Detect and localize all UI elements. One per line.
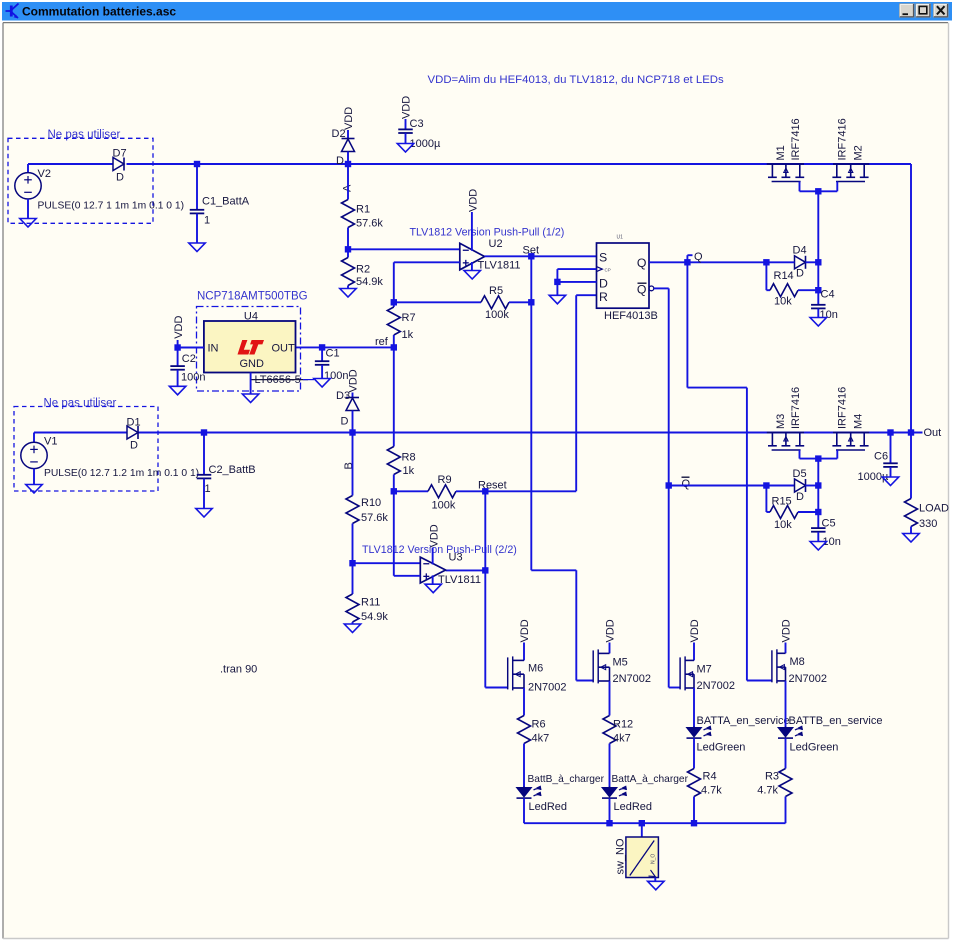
wire Set vertical	[530, 256, 532, 302]
svg-text:D: D	[341, 416, 349, 428]
junction	[349, 429, 355, 435]
svg-text:.tran 90: .tran 90	[220, 664, 257, 676]
capacitor C5	[817, 486, 819, 513]
diode D7	[113, 158, 124, 171]
wire U3 output	[446, 569, 486, 571]
svg-text:R: R	[599, 290, 608, 304]
svg-text:BattA_à_charger: BattA_à_charger	[612, 774, 689, 785]
svg-text:U3: U3	[449, 552, 463, 564]
junction	[391, 299, 397, 305]
svg-text:1k: 1k	[402, 329, 414, 341]
resistor R7	[393, 302, 395, 307]
svg-text:BATTA_en_service: BATTA_en_service	[697, 715, 790, 727]
svg-text:OUT: OUT	[272, 343, 296, 355]
svg-text:C2_BattB: C2_BattB	[209, 464, 256, 476]
junction	[684, 259, 690, 265]
svg-text:4.7k: 4.7k	[757, 785, 778, 797]
junction	[815, 455, 821, 461]
svg-text:C3: C3	[410, 118, 424, 130]
junction	[908, 429, 914, 435]
wire Reset net down to M6 gate	[484, 570, 486, 687]
svg-text:54.9k: 54.9k	[356, 276, 383, 288]
svg-text:U4: U4	[244, 311, 258, 323]
wire Qbar net down	[668, 288, 670, 687]
svg-text:M3: M3	[775, 414, 787, 429]
wire D pin	[557, 281, 596, 283]
svg-text:D4: D4	[793, 245, 807, 257]
svg-text:V2: V2	[38, 168, 51, 180]
svg-text:LedGreen: LedGreen	[697, 742, 746, 754]
dashed box top (Ne pas utiliser)	[8, 138, 153, 223]
junction	[815, 482, 821, 488]
junction	[391, 488, 397, 494]
title bar	[2, 2, 952, 21]
wire M3/M4 gates	[799, 450, 801, 459]
svg-text:C2: C2	[182, 353, 196, 365]
op-amp U3 TLV1811	[420, 557, 445, 583]
svg-text:ref: ref	[375, 336, 389, 348]
wire Reset down to U3 output	[484, 491, 486, 570]
svg-text:GND: GND	[240, 358, 265, 370]
resistor R9	[394, 490, 428, 492]
junction	[815, 188, 821, 194]
junction	[345, 246, 351, 252]
junction	[194, 161, 200, 167]
ground U3	[425, 584, 441, 593]
svg-text:R11: R11	[361, 597, 380, 609]
resistor R5	[394, 301, 481, 303]
wire U3 + input	[393, 491, 395, 576]
svg-text:D7: D7	[113, 148, 127, 160]
wire U4 GND pin	[250, 373, 252, 395]
svg-text:57.6k: 57.6k	[356, 218, 383, 230]
wire to U2 inverting input	[348, 248, 460, 250]
junction	[391, 344, 397, 350]
svg-text:S: S	[599, 251, 607, 265]
wire Reset to R pin riser	[485, 490, 576, 492]
svg-text:LedGreen: LedGreen	[790, 742, 839, 754]
svg-text:2N7002: 2N7002	[789, 673, 828, 685]
transistor M4 IRF7416	[863, 433, 865, 446]
junction	[174, 344, 180, 350]
svg-text:1: 1	[205, 483, 211, 495]
svg-text:R12: R12	[613, 719, 633, 731]
svg-text:CP: CP	[605, 267, 611, 272]
svg-text:10k: 10k	[774, 519, 792, 531]
svg-text:D3: D3	[336, 390, 350, 402]
junction	[815, 509, 821, 515]
svg-text:R1: R1	[356, 204, 370, 216]
svg-text:TLV1812 Version Push-Pull (1/2: TLV1812 Version Push-Pull (1/2)	[410, 227, 565, 239]
junction	[639, 820, 645, 826]
wire M5 chain to rail	[609, 798, 611, 823]
resistor R14	[765, 262, 767, 290]
LTspice window icon	[6, 4, 19, 19]
svg-text:BattB_à_charger: BattB_à_charger	[528, 774, 605, 785]
ground U4	[242, 394, 258, 403]
capacitor C2	[177, 348, 179, 366]
wire bottom rail	[524, 822, 786, 824]
wire M6 chain to rail	[523, 798, 525, 823]
ground V2	[20, 219, 36, 228]
svg-text:R3: R3	[765, 771, 779, 783]
svg-text:VDD: VDD	[173, 316, 185, 339]
svg-text:C5: C5	[822, 518, 836, 530]
svg-text:2N7002: 2N7002	[613, 673, 652, 685]
svg-text:C1: C1	[326, 348, 340, 360]
svg-text:PULSE(0 12.7 1.2 1m 1m 0.1 0 1: PULSE(0 12.7 1.2 1m 1m 0.1 0 1)	[44, 468, 199, 479]
junction	[763, 259, 769, 265]
svg-text:VDD=Alim du HEF4013, du TLV181: VDD=Alim du HEF4013, du TLV1812, du NCP7…	[428, 74, 725, 86]
wire right edge drop to Out	[910, 164, 912, 433]
svg-text:PULSE(0 12.7 1 1m 1m 0.1 0 1): PULSE(0 12.7 1 1m 1m 0.1 0 1)	[38, 201, 185, 212]
svg-text:TLV1811: TLV1811	[478, 260, 521, 272]
svg-text:R14: R14	[774, 270, 794, 282]
svg-text:R9: R9	[438, 474, 452, 486]
svg-text:4.7k: 4.7k	[701, 785, 722, 797]
svg-text:Q: Q	[694, 251, 703, 263]
wire Qbar output	[654, 287, 669, 289]
clock pin wedge	[597, 267, 603, 272]
resistor R4	[693, 738, 695, 768]
diode D1	[127, 426, 138, 439]
voltage source V1	[33, 433, 35, 443]
M3/M4 symbol top bars	[767, 432, 804, 434]
svg-text:IRF7416: IRF7416	[790, 118, 802, 160]
wire BattB rail (node B)	[34, 432, 127, 434]
wire ref line	[296, 346, 394, 348]
svg-text:D: D	[599, 277, 608, 291]
junction	[201, 429, 207, 435]
svg-text:M6: M6	[528, 663, 543, 675]
svg-text:VDD: VDD	[468, 189, 480, 212]
ground R11	[344, 624, 360, 633]
junction	[554, 279, 560, 285]
svg-text:10k: 10k	[774, 296, 792, 308]
resistor R12	[609, 681, 611, 716]
wire U4 IN	[178, 347, 204, 349]
Qbar output bubble	[649, 286, 654, 291]
svg-text:D: D	[116, 172, 124, 184]
svg-text:M4: M4	[853, 414, 865, 429]
svg-text:M2: M2	[853, 145, 865, 160]
op-amp U2 TLV1811	[460, 243, 485, 269]
svg-text:U2: U2	[489, 238, 503, 250]
transistor M1 IRF7416	[771, 164, 773, 177]
svg-text:2N7002: 2N7002	[528, 682, 567, 694]
ground switch	[648, 881, 664, 890]
svg-text:VDD: VDD	[343, 107, 355, 130]
wire Set to M5 gate	[576, 680, 593, 682]
svg-text:IRF7416: IRF7416	[790, 387, 802, 429]
flip-flop U1 HEF4013B	[597, 243, 650, 308]
svg-text:D: D	[796, 268, 804, 280]
svg-text:VDD: VDD	[519, 619, 531, 642]
ground U2	[464, 271, 480, 280]
svg-text:VDD: VDD	[429, 524, 441, 547]
switch sw_NO	[641, 823, 643, 837]
LT logo	[238, 340, 251, 355]
svg-text:LedRed: LedRed	[529, 801, 568, 813]
svg-text:N_O: N_O	[651, 854, 657, 864]
junction	[815, 259, 821, 265]
svg-text:D: D	[130, 440, 138, 452]
dashed box bottom (Ne pas utiliser)	[14, 407, 158, 492]
svg-text:R4: R4	[703, 771, 717, 783]
svg-text:R2: R2	[356, 264, 370, 276]
junction	[815, 287, 821, 293]
junction	[349, 560, 355, 566]
regulator U4 NCP718 body	[204, 321, 296, 373]
svg-text:M5: M5	[613, 657, 628, 669]
ground R2	[340, 289, 356, 298]
ground C6	[882, 477, 898, 486]
svg-text:Ne pas utiliser: Ne pas utiliser	[48, 129, 121, 141]
svg-text:100n: 100n	[181, 372, 205, 384]
resistor R6	[523, 688, 525, 716]
svg-text:U1: U1	[617, 235, 624, 241]
ground C1	[314, 379, 330, 388]
svg-text:57.6k: 57.6k	[361, 512, 388, 524]
svg-text:2N7002: 2N7002	[697, 680, 736, 692]
resistor R1	[347, 164, 349, 200]
ground C1_BattA	[189, 243, 205, 252]
svg-text:LOAD: LOAD	[919, 503, 949, 515]
svg-text:C4: C4	[821, 289, 835, 301]
ground LOAD	[903, 534, 919, 543]
ground C2	[169, 386, 185, 395]
svg-text:1k: 1k	[403, 465, 415, 477]
ground C3	[397, 144, 413, 153]
svg-text:TLV1811: TLV1811	[438, 574, 481, 586]
ground D pin	[549, 295, 565, 304]
wire M1/M2 gates	[799, 182, 801, 192]
M1/M2 symbol top bars	[767, 163, 804, 165]
svg-text:VDD: VDD	[401, 96, 413, 119]
svg-text:D5: D5	[793, 468, 807, 480]
svg-text:C1_BattA: C1_BattA	[202, 196, 250, 208]
svg-text:BATTB_en_service: BATTB_en_service	[789, 715, 883, 727]
svg-text:LedRed: LedRed	[614, 801, 653, 813]
svg-text:sw_NO: sw_NO	[614, 838, 626, 875]
svg-text:R8: R8	[402, 452, 416, 464]
junction	[528, 253, 534, 259]
voltage source V2	[27, 164, 29, 173]
svg-text:VDD: VDD	[689, 619, 701, 642]
wire Q output	[649, 261, 766, 263]
svg-text:R15: R15	[772, 496, 792, 508]
svg-text:R10: R10	[361, 497, 381, 509]
wire U2 + input feedback	[394, 261, 460, 263]
wire Q to M8 gate	[747, 680, 772, 682]
svg-text:C6: C6	[874, 451, 888, 463]
resistor R2	[347, 249, 349, 257]
svg-text:D1: D1	[127, 417, 141, 429]
resistor R3	[785, 738, 787, 768]
svg-text:HEF4013B: HEF4013B	[604, 310, 658, 322]
svg-text:NCP718AMT500TBG: NCP718AMT500TBG	[197, 291, 308, 303]
junction	[482, 488, 488, 494]
svg-text:1: 1	[204, 215, 210, 227]
junction	[691, 820, 697, 826]
svg-text:M1: M1	[775, 145, 787, 160]
svg-text:VDD: VDD	[605, 619, 617, 642]
junction	[606, 820, 612, 826]
svg-text:M7: M7	[697, 664, 712, 676]
junction	[319, 344, 325, 350]
svg-text:10n: 10n	[820, 309, 838, 321]
transistor M2 IRF7416	[863, 164, 865, 177]
svg-text:R7: R7	[402, 312, 416, 324]
svg-text:D2: D2	[332, 128, 346, 140]
junction	[887, 429, 893, 435]
svg-text:V1: V1	[44, 436, 57, 448]
svg-text:IRF7416: IRF7416	[837, 118, 849, 160]
svg-text:VDD: VDD	[348, 369, 360, 392]
svg-text:330: 330	[919, 518, 937, 530]
dash-dot box NCP718	[197, 307, 301, 392]
svg-text:Q: Q	[637, 256, 647, 270]
junction	[528, 299, 534, 305]
wire BattA rail	[28, 163, 113, 165]
window button min	[900, 4, 915, 17]
window button max	[916, 4, 931, 17]
ground C5	[810, 542, 826, 551]
junction	[482, 567, 488, 573]
resistor R8	[393, 347, 395, 446]
svg-text:M8: M8	[790, 656, 805, 668]
window button close	[934, 4, 949, 17]
svg-text:4k7: 4k7	[613, 733, 631, 745]
wire CP pin	[557, 268, 596, 270]
svg-text:Q: Q	[682, 478, 691, 490]
svg-text:D: D	[796, 491, 804, 503]
svg-text:R6: R6	[532, 719, 546, 731]
wire Set jog	[531, 569, 576, 571]
junction	[345, 161, 351, 167]
ground C2_BattB	[196, 509, 212, 518]
svg-text:100k: 100k	[485, 309, 509, 321]
capacitor C4	[817, 262, 819, 290]
svg-text:Commutation batteries.asc: Commutation batteries.asc	[22, 5, 176, 19]
resistor R15	[765, 486, 767, 513]
wire switch to ground	[654, 878, 656, 882]
svg-text:D: D	[336, 155, 344, 167]
wire U2 output to S pin (Set)	[485, 255, 597, 257]
svg-text:VDD: VDD	[781, 619, 793, 642]
ground C4	[810, 318, 826, 327]
svg-text:IN: IN	[208, 343, 219, 355]
resistor R11	[352, 563, 354, 594]
svg-text:4k7: 4k7	[532, 733, 550, 745]
svg-text:IRF7416: IRF7416	[837, 387, 849, 429]
svg-text:R5: R5	[489, 285, 503, 297]
ground V1	[26, 485, 42, 494]
junction	[763, 482, 769, 488]
resistor R10	[352, 433, 354, 496]
wire Qbar to M7 gate	[669, 687, 680, 689]
transistor M3 IRF7416	[771, 433, 773, 446]
net label Q with hook	[686, 255, 688, 262]
svg-text:Ne pas utiliser: Ne pas utiliser	[44, 397, 117, 409]
wire Q net down	[686, 262, 688, 387]
wire to U3 inverting input	[353, 562, 421, 564]
svg-text:100k: 100k	[432, 500, 456, 512]
junction	[666, 482, 672, 488]
resistor LOAD	[910, 433, 912, 499]
svg-text:Out: Out	[924, 427, 942, 439]
svg-text:Q: Q	[637, 283, 647, 297]
svg-text:54.9k: 54.9k	[361, 611, 388, 623]
